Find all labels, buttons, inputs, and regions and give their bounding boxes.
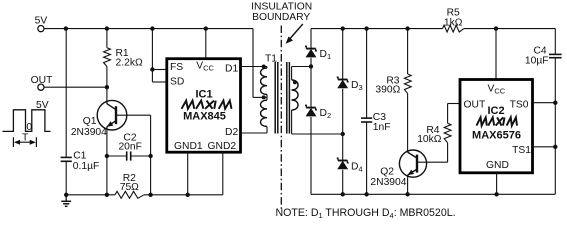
svg-text:MAX6576: MAX6576 bbox=[472, 129, 521, 141]
wire IC2 TS1 to right vertical bbox=[533, 146, 556, 148]
svg-text:TS0: TS0 bbox=[510, 99, 529, 110]
wire D3 to AC2 node bbox=[342, 89, 344, 134]
wire R3 top lead bbox=[407, 29, 409, 75]
node VCC rail junction bbox=[494, 26, 498, 30]
svg-text:Q2: Q2 bbox=[380, 167, 394, 178]
T1 core lines primary side bbox=[274, 62, 276, 134]
wire IC1 GND1 down bbox=[187, 152, 189, 195]
node: bus to R1 junction bbox=[105, 26, 109, 30]
wire Q2 emitter to rail bbox=[407, 177, 409, 194]
T1 primary lower winding bbox=[261, 100, 267, 109]
node C3 at rail bbox=[364, 192, 368, 196]
wire R1 to OUT node bbox=[106, 67, 108, 88]
wire FS junction down to SD bbox=[151, 70, 153, 83]
resistor R1 bbox=[104, 48, 111, 67]
svg-text:BOUNDARY: BOUNDARY bbox=[252, 12, 310, 23]
resistor R4 10k bbox=[444, 123, 451, 143]
node D3 top rail bbox=[341, 26, 345, 30]
svg-text:5V: 5V bbox=[36, 100, 49, 111]
node TS1 junction bbox=[553, 145, 557, 149]
terminal OUT bbox=[38, 84, 44, 90]
svg-text:1kΩ: 1kΩ bbox=[444, 17, 463, 28]
wire FS to IC1 bbox=[152, 69, 166, 71]
diode D2 bbox=[306, 109, 315, 116]
svg-text:75Ω: 75Ω bbox=[120, 182, 139, 193]
capacitor C1 0.1uF bbox=[61, 156, 72, 158]
T1 secondary spine bbox=[291, 67, 293, 81]
resistor R2 75ohm bbox=[115, 191, 144, 198]
wire IC2 TS0 to right vertical bbox=[533, 102, 556, 104]
svg-text:0: 0 bbox=[26, 122, 32, 133]
wire C3 top lead bbox=[366, 29, 368, 118]
insulation boundary arrow bbox=[288, 24, 303, 42]
node C3 top rail bbox=[364, 26, 368, 30]
node OUT junction bbox=[105, 85, 109, 89]
diode D1 bbox=[306, 50, 315, 57]
wire bus corner down to center tap bbox=[252, 29, 254, 98]
svg-text:C1: C1 bbox=[73, 150, 86, 161]
wire IC2 GND down to rail bbox=[496, 173, 498, 195]
waveform period T annotation bbox=[12, 137, 14, 147]
insulation boundary dash-dot line bbox=[280, 26, 282, 212]
wire IC1 VCC pin bbox=[205, 29, 207, 59]
svg-text:OUT: OUT bbox=[464, 99, 486, 110]
svg-text:NOTE: D1 THROUGH D4: MBR0520L.: NOTE: D1 THROUGH D4: MBR0520L. bbox=[276, 207, 456, 220]
T1 primary phase dot top bbox=[262, 65, 266, 69]
svg-text:5V: 5V bbox=[35, 15, 48, 26]
wire bus down to R1 bbox=[106, 29, 108, 48]
IC1 MAXIM logo bbox=[182, 101, 195, 109]
svg-text:Q1: Q1 bbox=[83, 116, 97, 127]
T1 primary spine bbox=[266, 67, 268, 69]
wire IC1 GND2 down bbox=[222, 152, 224, 195]
capacitor C4 10uF bbox=[549, 53, 562, 55]
resistor R5 1k bbox=[443, 25, 464, 32]
wire Q2 base to R4 bbox=[417, 161, 448, 163]
op-amp U.. IC1 MAX845 box bbox=[167, 59, 241, 153]
wire OUT node to Q1 collector bbox=[106, 87, 108, 101]
node TS0 junction bbox=[553, 101, 557, 105]
svg-text:390Ω: 390Ω bbox=[375, 85, 400, 96]
wire Q1 base to right vertical bbox=[116, 114, 151, 116]
node: bus to FS/SD junction bbox=[150, 26, 154, 30]
svg-text:TS1: TS1 bbox=[512, 145, 531, 156]
svg-text:10µF: 10µF bbox=[525, 56, 549, 67]
svg-text:SD: SD bbox=[170, 76, 184, 87]
svg-text:T: T bbox=[22, 133, 29, 144]
node C2 right junction bbox=[148, 154, 152, 158]
node R3 top rail bbox=[405, 26, 409, 30]
svg-text:IC1: IC1 bbox=[195, 89, 212, 101]
wire SD to IC1 bbox=[152, 81, 166, 83]
wire R4 top to OUT pin bbox=[447, 104, 449, 124]
wire D2 anode down to ground rail bbox=[310, 117, 312, 194]
wire D1 to AC1 node bbox=[310, 58, 312, 67]
svg-text:1nF: 1nF bbox=[373, 122, 391, 133]
node FS junction bbox=[150, 67, 154, 71]
T1 secondary winding bbox=[292, 80, 298, 90]
node: bus to IC1 VCC junction bbox=[204, 26, 208, 30]
IC2 MAXIM logo bbox=[477, 117, 487, 125]
svg-text:GND: GND bbox=[486, 160, 509, 171]
capacitor C3 1nF bbox=[361, 117, 372, 119]
wire rail corner to C4 bbox=[554, 29, 556, 55]
svg-text:2N3904: 2N3904 bbox=[370, 177, 406, 188]
transistor Q2 2N3904 bbox=[399, 150, 426, 177]
wire C2 node down to rail bbox=[150, 156, 152, 195]
svg-text:FS: FS bbox=[170, 62, 183, 73]
diode D4 bbox=[338, 162, 347, 169]
op-amp IC2 MAX6576 box bbox=[460, 80, 533, 173]
node C1 at rail bbox=[64, 193, 68, 197]
node D4 at rail bbox=[341, 192, 345, 196]
wire bridge left leg top bbox=[310, 29, 312, 49]
wire C1 to ground rail bbox=[65, 161, 67, 195]
waveform square wave annotation bbox=[3, 110, 51, 132]
wire D4 anode to ground rail bbox=[342, 170, 344, 195]
node AC1 bbox=[309, 64, 313, 68]
node Q1 emitter at rail bbox=[105, 193, 109, 197]
wire C2 right lead bbox=[131, 155, 151, 157]
wire ground rail left segment bbox=[66, 194, 115, 196]
resistor R3 390ohm bbox=[404, 74, 411, 94]
svg-text:IC2: IC2 bbox=[487, 105, 504, 117]
node GND1 at rail bbox=[186, 193, 190, 197]
wire IC1 D2 to transformer bbox=[241, 132, 268, 134]
svg-text:D1: D1 bbox=[225, 63, 238, 74]
wire bus down to FS bbox=[151, 29, 153, 70]
node Q2 emitter at rail bbox=[405, 192, 409, 196]
svg-text:2N3904: 2N3904 bbox=[71, 127, 107, 138]
node: bus to C1 junction bbox=[64, 26, 68, 30]
svg-text:GND2: GND2 bbox=[208, 141, 237, 152]
wire C2 left lead bbox=[107, 155, 127, 157]
wire C4 down to rail corner bbox=[554, 58, 556, 195]
node C2 left junction bbox=[105, 154, 109, 158]
wire AC1 to D2 bbox=[310, 66, 312, 107]
node AC2 bbox=[341, 132, 345, 136]
wire secondary top to bridge bbox=[292, 66, 311, 68]
node sense node at rail bbox=[148, 193, 152, 197]
wire ground rail right segment bbox=[144, 194, 223, 196]
wire OUT terminal to junction bbox=[44, 86, 107, 88]
wire secondary bottom to bridge bbox=[292, 133, 343, 135]
wire 5V bus down to C1 bbox=[65, 29, 67, 158]
wire C3 bottom lead bbox=[366, 122, 368, 194]
wire VCC down to IC2 bbox=[495, 29, 497, 80]
power terminal 5V (left) bbox=[38, 26, 44, 32]
svg-text:20nF: 20nF bbox=[118, 142, 141, 153]
wire AC2 to D4 bbox=[342, 134, 344, 161]
capacitor C2 20nF bbox=[126, 151, 128, 160]
T1 primary phase dot lower bbox=[262, 95, 266, 99]
node IC2 GND at rail bbox=[494, 192, 498, 196]
T1 secondary phase dot bbox=[293, 80, 297, 84]
svg-text:MAX845: MAX845 bbox=[183, 110, 226, 122]
wire bridge right leg top bbox=[342, 29, 344, 80]
svg-text:10kΩ: 10kΩ bbox=[417, 134, 442, 145]
wire 5V top bus bbox=[44, 28, 253, 30]
svg-text:INSULATION: INSULATION bbox=[251, 2, 312, 13]
ground symbol bbox=[65, 195, 67, 202]
T1 core lines secondary side bbox=[286, 62, 288, 134]
svg-text:GND1: GND1 bbox=[174, 141, 203, 152]
svg-text:0.1µF: 0.1µF bbox=[73, 161, 100, 172]
wire secondary ground rail bbox=[311, 193, 555, 195]
svg-text:OUT: OUT bbox=[31, 75, 53, 86]
wire Q1 emitter down to ground rail bbox=[106, 130, 108, 195]
wire top rail right side bbox=[311, 28, 443, 30]
wire R3 to Q2 collector bbox=[407, 94, 409, 151]
wire IC1 D1 to transformer bbox=[241, 66, 268, 68]
T1 primary upper winding bbox=[261, 68, 267, 77]
svg-text:2.2kΩ: 2.2kΩ bbox=[116, 57, 143, 68]
diode D3 bbox=[338, 81, 347, 88]
svg-text:D2: D2 bbox=[225, 127, 238, 138]
transistor Q1 2N3904 bbox=[97, 100, 127, 130]
